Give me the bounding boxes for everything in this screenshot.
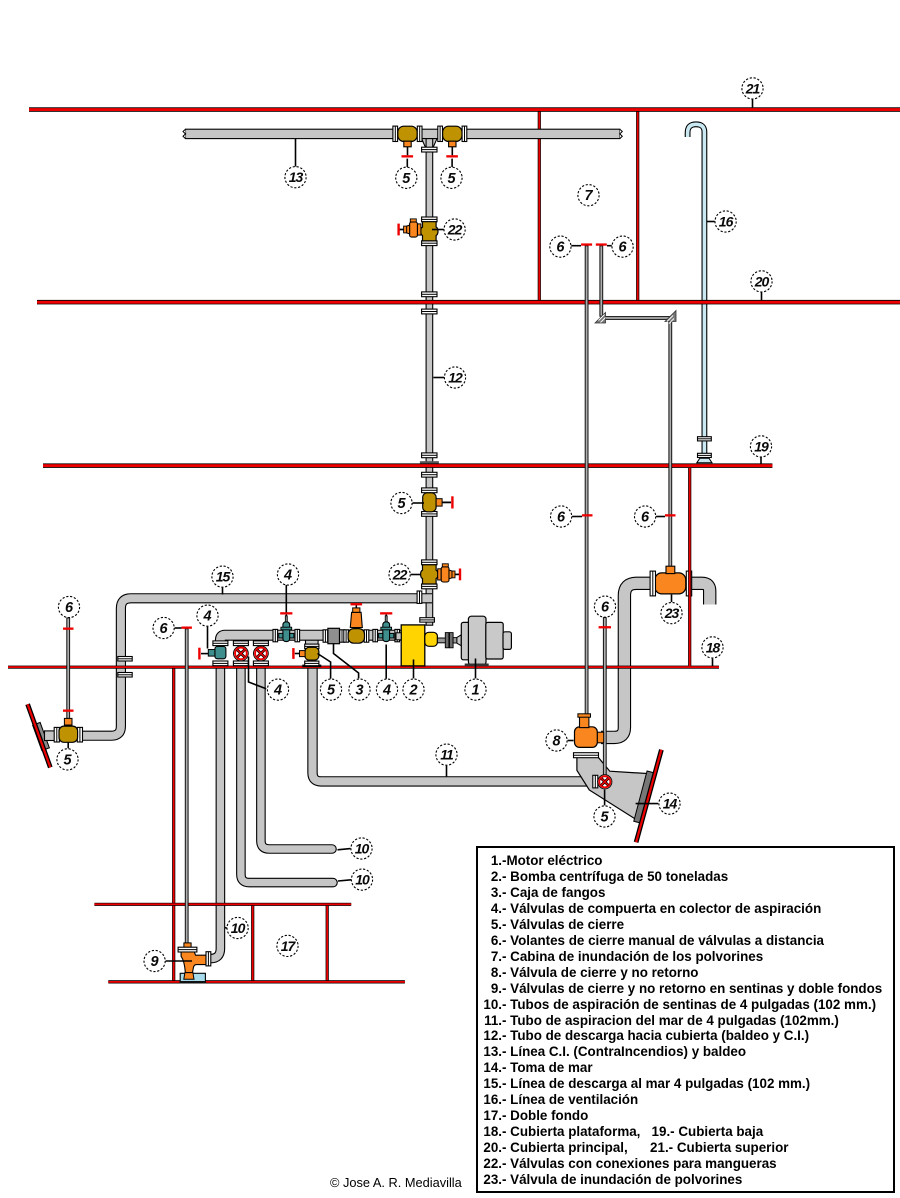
svg-text:4: 4: [283, 568, 292, 584]
flange above branch 3 check valve: [253, 641, 268, 646]
floor vertical in double bottom right: [326, 905, 329, 982]
bilge suction pipe branch 1 down to valve 9: [208, 666, 220, 959]
vent foot flare: [697, 458, 712, 463]
branch 3 tee stub: [256, 636, 267, 644]
handwheel on rod to valve 9: [181, 627, 192, 629]
svg-text:15: 15: [216, 569, 231, 585]
pipe 10 branch 2 end mask: [235, 661, 246, 666]
handwheel of rod to valve 23: [596, 243, 607, 245]
bulkhead between deck 21 and 20 right: [636, 112, 639, 301]
sea chest valve 5 circle: [598, 775, 612, 789]
leader label 6 bilge rod: [175, 627, 182, 629]
handwheel of globe valve: [351, 603, 363, 605]
label 6 e: [153, 617, 174, 638]
mud box caja de fangos: [328, 628, 340, 643]
svg-text:6: 6: [65, 600, 74, 616]
bilge suction pipe 10 branch 3: [261, 666, 332, 849]
flange above branch 1 valve: [213, 641, 228, 646]
label 15: [212, 566, 233, 587]
hose connection on valve 22 lower: [438, 564, 460, 582]
label 22 b: [389, 564, 410, 585]
svg-text:23: 23: [664, 605, 680, 621]
leader label 5 fire main right: [451, 159, 453, 167]
svg-text:1: 1: [471, 683, 479, 699]
pump outlet cylinder: [425, 632, 438, 646]
label 8: [546, 730, 567, 751]
label 4 d: [376, 679, 397, 700]
leader label 16: [707, 221, 715, 223]
valve 9 seating box: [180, 973, 205, 982]
leader label 13: [295, 139, 297, 167]
vent pipe flange upper: [698, 437, 712, 441]
leader label 8: [568, 740, 574, 742]
flange on pipe 11 at sea chest: [593, 775, 598, 788]
flange above valve 5 on riser: [422, 488, 437, 493]
handwheel of sea suction valve 5: [292, 648, 294, 659]
flooding pipe from valve 23 left side down to valve 8: [601, 583, 651, 737]
gear joint right: [665, 311, 676, 324]
leader label 14: [636, 803, 659, 805]
rod lower section to valve 23: [669, 320, 672, 567]
pump shaft: [437, 638, 445, 643]
branch 2 tee stub: [236, 636, 247, 644]
svg-text:11: 11: [440, 747, 454, 763]
hull doubler plate at overboard discharge: [33, 722, 50, 750]
svg-text:5: 5: [402, 171, 411, 187]
label 2: [403, 679, 424, 700]
label 1: [465, 679, 486, 700]
valve 8 stop and non-return body: [575, 714, 604, 748]
svg-text:9: 9: [151, 954, 159, 970]
label 7: [578, 185, 599, 206]
svg-text:6: 6: [641, 510, 650, 526]
svg-text:14: 14: [663, 796, 678, 812]
shaft coupling: [445, 633, 457, 648]
leader stem valve 4 header: [285, 585, 287, 613]
flood valve left flange: [650, 571, 655, 596]
label 14: [659, 793, 680, 814]
leader label 10 lower: [338, 880, 351, 881]
flooding pipe open end right of valve 23: [691, 583, 710, 604]
flange above sea suction valve 5: [305, 644, 319, 649]
overboard short pipe: [45, 731, 56, 741]
svg-text:22: 22: [392, 567, 408, 583]
valve 9 outlet flange: [206, 952, 211, 966]
valve 5 on fire main right handwheel: [446, 155, 458, 157]
label 4 a: [197, 605, 218, 626]
svg-text:6: 6: [601, 600, 610, 616]
label 4 c: [267, 679, 288, 700]
leader label 15: [222, 588, 224, 595]
deck 21 cubierta superior: [29, 107, 900, 112]
deck 18 cubierta plataforma: [8, 666, 719, 669]
deck penetration collar on deck 19: [420, 461, 439, 464]
flange under tee: [422, 147, 437, 152]
svg-text:3: 3: [355, 683, 363, 699]
overboard valve right flange: [77, 727, 82, 742]
flange below valve 8: [574, 753, 599, 758]
leader label 22 lower: [411, 574, 421, 576]
pump discharge flange: [420, 618, 435, 622]
leader label 10 vertical pipe: [225, 927, 227, 929]
handwheel lower on rod to valve 23: [665, 514, 676, 516]
label 23: [661, 603, 682, 624]
hose connection on valve 22 upper: [399, 219, 421, 237]
svg-text:6: 6: [619, 240, 628, 256]
label 6 c: [551, 506, 572, 527]
gate valve 4 on suction header: [279, 614, 294, 641]
leader label 6 mid right: [656, 516, 665, 518]
label 6 b: [612, 236, 633, 257]
pipe 15 discharge line to sea: [81, 598, 432, 735]
gate valve 4 on branch 1: [201, 646, 226, 658]
leader label 1: [475, 659, 477, 679]
svg-text:10: 10: [355, 872, 370, 888]
label 13: [285, 167, 306, 188]
label 10 b: [351, 869, 372, 890]
collar under sea suction valve: [302, 665, 321, 668]
label 5 a: [396, 167, 417, 188]
sea suction tee stub: [305, 636, 318, 645]
valve 5 on fire main left stem: [407, 147, 409, 156]
label 12: [444, 367, 465, 388]
hull doubler plate at sea chest: [634, 771, 654, 823]
flange above valve 22 lower: [422, 560, 437, 565]
label 19: [750, 436, 771, 457]
flange below valve 22 upper: [422, 241, 437, 246]
gate valve 4 before pump left flange: [373, 629, 378, 641]
leader label 6 rod left: [571, 245, 581, 247]
label 5 d: [320, 679, 341, 700]
horizontal rod section: [601, 317, 670, 320]
valve 5 on fire main right stem: [451, 147, 453, 156]
label 21: [742, 78, 763, 99]
flood valve 23 body: [655, 566, 686, 594]
gate valve 4 before pump handwheel: [380, 612, 392, 614]
label 20: [751, 271, 772, 292]
overboard valve left flange: [54, 727, 59, 742]
leader stem valve 4 before pump: [385, 645, 387, 679]
valve 5 on fire main right: [443, 126, 462, 147]
floor vertical in double bottom middle: [251, 905, 254, 982]
svg-text:4: 4: [382, 683, 391, 699]
valve 5 on fire main right right flange: [462, 126, 467, 141]
label 6 g: [594, 596, 615, 617]
deck 20 cubierta principal: [37, 300, 900, 305]
handwheel of branch 1 valve: [198, 648, 200, 660]
hose connection on valve 22 lower red cap: [459, 569, 461, 581]
svg-text:10: 10: [231, 920, 246, 936]
svg-text:4: 4: [202, 609, 211, 625]
vent pipe flange lower: [698, 453, 712, 457]
gate valve 4 before pump right flange: [395, 629, 400, 641]
motor shaft taper: [457, 635, 461, 646]
flange below valve 5 on riser: [422, 512, 437, 517]
check valve branch 2: [234, 646, 249, 661]
copyright: [330, 1175, 462, 1190]
label 16: [715, 211, 736, 232]
svg-text:2: 2: [408, 683, 417, 699]
leader label 5 sea suction: [318, 654, 331, 679]
handwheel lower on overboard rod: [63, 710, 74, 712]
gate valve 4 on suction header left flange: [273, 629, 278, 641]
bulkhead between deck 21 and 20 left: [538, 112, 541, 301]
label 11: [436, 744, 457, 765]
leader label 12: [433, 377, 444, 379]
leader label 5 riser: [413, 502, 425, 504]
svg-text:4: 4: [273, 683, 282, 699]
sea chest funnel toma de mar: [577, 757, 650, 820]
svg-text:10: 10: [355, 841, 370, 857]
rod to sea chest valve 5: [603, 618, 606, 776]
handwheel of rod to valve 8: [581, 243, 592, 245]
flange below valve 22 lower: [422, 584, 437, 589]
gate valve 4 before pump: [379, 614, 394, 641]
flange below deck 20 on riser: [422, 309, 437, 314]
svg-text:16: 16: [719, 214, 734, 230]
svg-text:17: 17: [281, 938, 297, 954]
leader label 6 mid left: [572, 516, 582, 518]
rod from deck handwheel to valve 8: [585, 246, 588, 717]
legend box: [476, 846, 895, 1193]
globe valve orange bonnet: [350, 605, 362, 628]
label 17: [277, 935, 298, 956]
flange below branch 1 valve: [213, 661, 228, 666]
valve 9 base bar: [180, 981, 207, 984]
leader label 23: [671, 595, 673, 603]
leader label 18: [712, 659, 714, 666]
label 5 overboard: [57, 749, 78, 770]
leader label 6 rod right: [607, 245, 612, 247]
svg-text:5: 5: [447, 171, 456, 187]
label 10 a: [351, 838, 372, 859]
valve 5 on fire main left: [398, 126, 417, 147]
flange above valve 22 upper: [422, 217, 437, 222]
flange above deck 19 on riser: [422, 453, 437, 458]
flood valve right flange: [686, 571, 691, 596]
sea suction valve 5 body: [295, 647, 319, 660]
pipe 11 sea suction line: [313, 666, 595, 782]
flange above branch 2 check valve: [233, 641, 248, 646]
double bottom bottom line: [108, 980, 405, 983]
svg-text:13: 13: [289, 169, 304, 185]
flange below branch 3 check valve: [253, 661, 268, 666]
hose connection on valve 22 upper red cap: [397, 224, 399, 236]
handwheel on sea chest rod: [599, 626, 611, 628]
leader label 21: [752, 99, 754, 107]
pipe 13 fire and washdeck line: [186, 129, 620, 138]
pipe 13 left break end: [183, 129, 186, 138]
svg-text:20: 20: [754, 273, 770, 289]
rod to overboard valve 5: [67, 618, 70, 719]
electric motor 1: [461, 616, 511, 666]
leader label 20: [761, 292, 763, 300]
globe valve right flange: [364, 630, 369, 642]
centrifugal pump 2 casing: [401, 625, 425, 666]
svg-text:19: 19: [754, 438, 769, 454]
handwheel lower on rod to valve 8: [582, 514, 593, 516]
rod to bilge valve 9: [185, 629, 188, 944]
label 18: [702, 637, 723, 658]
pump suction stub: [396, 633, 401, 640]
flange below branch 2 check valve: [233, 661, 248, 666]
hull side plating at overboard discharge: [28, 704, 51, 767]
leader label 10 upper: [338, 849, 351, 850]
suction header with elbow to branch 1: [220, 635, 401, 645]
valve 5 on fire main left right flange: [417, 126, 422, 141]
flange below deck 19 on riser: [422, 472, 437, 477]
overboard valve 5 body: [59, 718, 78, 742]
valve 5 on fire main left handwheel: [402, 155, 414, 157]
leader label 22 upper: [432, 229, 444, 231]
handwheel of valve 5 on riser: [451, 496, 453, 508]
rod upper section to valve 23: [600, 246, 603, 316]
valve 9 stem: [184, 943, 191, 948]
flange below deck 18 on pipe 15 leg: [118, 673, 132, 678]
svg-text:6: 6: [557, 510, 566, 526]
label 22 a: [444, 219, 465, 240]
valve 5 on fire main right left flange: [438, 126, 443, 141]
svg-text:5: 5: [63, 752, 72, 768]
leader label 4 branch 1: [207, 627, 209, 649]
floor vertical in double bottom left: [172, 668, 175, 982]
leader label 5 overboard: [67, 743, 69, 749]
leader label 19: [760, 457, 762, 463]
label 5 e: [594, 806, 615, 827]
leader label 3 mud box: [334, 644, 359, 679]
label 3: [349, 679, 370, 700]
bilge suction pipe 10 branch 2: [241, 666, 333, 883]
tee pipe 13 to riser: [422, 139, 437, 148]
label 6 f: [58, 596, 79, 617]
svg-text:7: 7: [584, 188, 593, 204]
svg-text:12: 12: [448, 370, 463, 386]
valve 5 on fire main left left flange: [393, 126, 398, 141]
bulkhead between deck 19 and 18: [688, 468, 691, 666]
svg-text:6: 6: [556, 240, 565, 256]
svg-text:18: 18: [706, 639, 721, 655]
leader label 11: [446, 766, 448, 777]
flange above deck 20 on riser: [422, 292, 437, 297]
label 6 a: [550, 236, 571, 257]
flange on valve 9: [178, 947, 197, 952]
mud box right flange: [340, 630, 345, 642]
svg-text:22: 22: [447, 222, 463, 238]
gear joint left: [595, 313, 606, 324]
svg-text:5: 5: [327, 683, 336, 699]
gate valve 4 on suction header right flange: [295, 629, 300, 641]
pipe 16 vent line gooseneck: [688, 124, 705, 462]
deck 19 cubierta baja: [43, 463, 772, 468]
valve 9 foot: [184, 973, 194, 980]
gate valve 4 on suction header handwheel: [280, 612, 292, 614]
globe valve left flange: [344, 630, 349, 642]
label 5 b: [441, 167, 462, 188]
valve 22 lower hose valve: [421, 565, 438, 584]
label 10 c: [227, 917, 248, 938]
leader label 9: [166, 960, 192, 962]
leader label 4 check valves: [249, 657, 267, 689]
check valve branch 3: [254, 646, 269, 661]
leader label 2: [413, 660, 415, 679]
label 4 b: [277, 564, 298, 585]
double bottom top line: [94, 903, 351, 906]
pipe 10 branch 3 end mask: [255, 661, 266, 666]
handwheel upper on overboard rod: [63, 628, 74, 630]
globe valve gold body: [348, 629, 364, 644]
mud box left flange: [323, 630, 328, 642]
svg-text:5: 5: [600, 810, 609, 826]
valve 5 on riser: [423, 493, 451, 512]
leader label 5 fire main left: [406, 159, 408, 167]
flange above deck 18 on pipe 15 leg: [118, 657, 132, 662]
svg-text:5: 5: [397, 496, 406, 512]
hull side plating at sea chest: [636, 750, 661, 843]
svg-text:21: 21: [745, 80, 761, 96]
flange on pipe 15 near tee: [417, 591, 422, 603]
svg-text:6: 6: [160, 621, 169, 637]
pipe 13 right break end: [620, 129, 623, 138]
leader label 5 sea chest: [604, 790, 606, 806]
valve 9 body: [181, 952, 206, 973]
label 5 c: [391, 492, 412, 513]
label 9: [144, 950, 165, 971]
svg-text:8: 8: [552, 734, 561, 750]
flange below sea suction valve 5: [305, 661, 319, 666]
label 6 d: [635, 506, 656, 527]
valve 22 upper hose valve: [421, 222, 438, 241]
pipe 12 riser: [426, 139, 433, 626]
